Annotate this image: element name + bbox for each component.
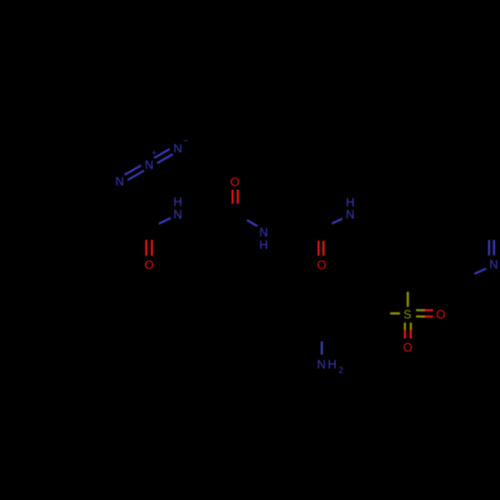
bond C3=O3 (double, red half) (319, 241, 324, 256)
wire S to C at left (olive half) (390, 312, 400, 314)
amide 2 (230, 175, 239, 204)
svg-text:H: H (259, 238, 268, 252)
wire carbonyl C2 to N2 (blue half) (247, 220, 258, 226)
svg-text:+: + (151, 148, 156, 158)
svg-text:N: N (489, 258, 498, 272)
svg-text:N: N (173, 141, 182, 155)
azide group N=N+=N- (115, 135, 188, 188)
svg-text:N: N (115, 175, 124, 189)
svg-text:H: H (328, 358, 337, 372)
svg-text:N: N (173, 208, 182, 222)
bond S=O down (double, olive/red) (405, 323, 411, 339)
svg-text:O: O (317, 258, 326, 272)
wire ring C to NH2 (blue half) (321, 341, 323, 354)
bond C2=O2 (double, red half) (233, 190, 238, 204)
sulfonyl group SO2 (390, 292, 445, 355)
svg-text:S: S (403, 308, 411, 322)
bond N1=N2 (double, azide) (125, 165, 145, 180)
svg-text:2: 2 (339, 365, 344, 375)
svg-text:N: N (317, 358, 326, 372)
amide 3 (332, 195, 355, 223)
bond C=N of pyridine (double, blue half) (489, 240, 494, 255)
wire N1H to carbonyl C1 (blue half) (159, 218, 171, 224)
wire S to aryl C above (olive half) (407, 292, 409, 307)
bond N2=N3 (double, azide) (154, 149, 173, 163)
svg-text:O: O (403, 341, 412, 355)
bond C1=O1 (double, red half) (146, 240, 152, 256)
svg-text:N: N (145, 158, 154, 172)
wire pyridine N to ring C lower-left (blue half) (475, 269, 487, 274)
svg-text:O: O (436, 308, 445, 322)
svg-text:O: O (230, 175, 239, 189)
pyridine ring nitrogen (475, 240, 499, 274)
aniline NH2 group (317, 341, 344, 375)
amide 1 (159, 195, 182, 224)
svg-text:O: O (144, 258, 153, 272)
svg-text:N: N (346, 207, 355, 221)
wire N3H to carbonyl C3 (blue half) (332, 219, 343, 224)
bond S=O right (double, olive/red) (416, 310, 433, 316)
svg-text:−: − (183, 135, 188, 145)
